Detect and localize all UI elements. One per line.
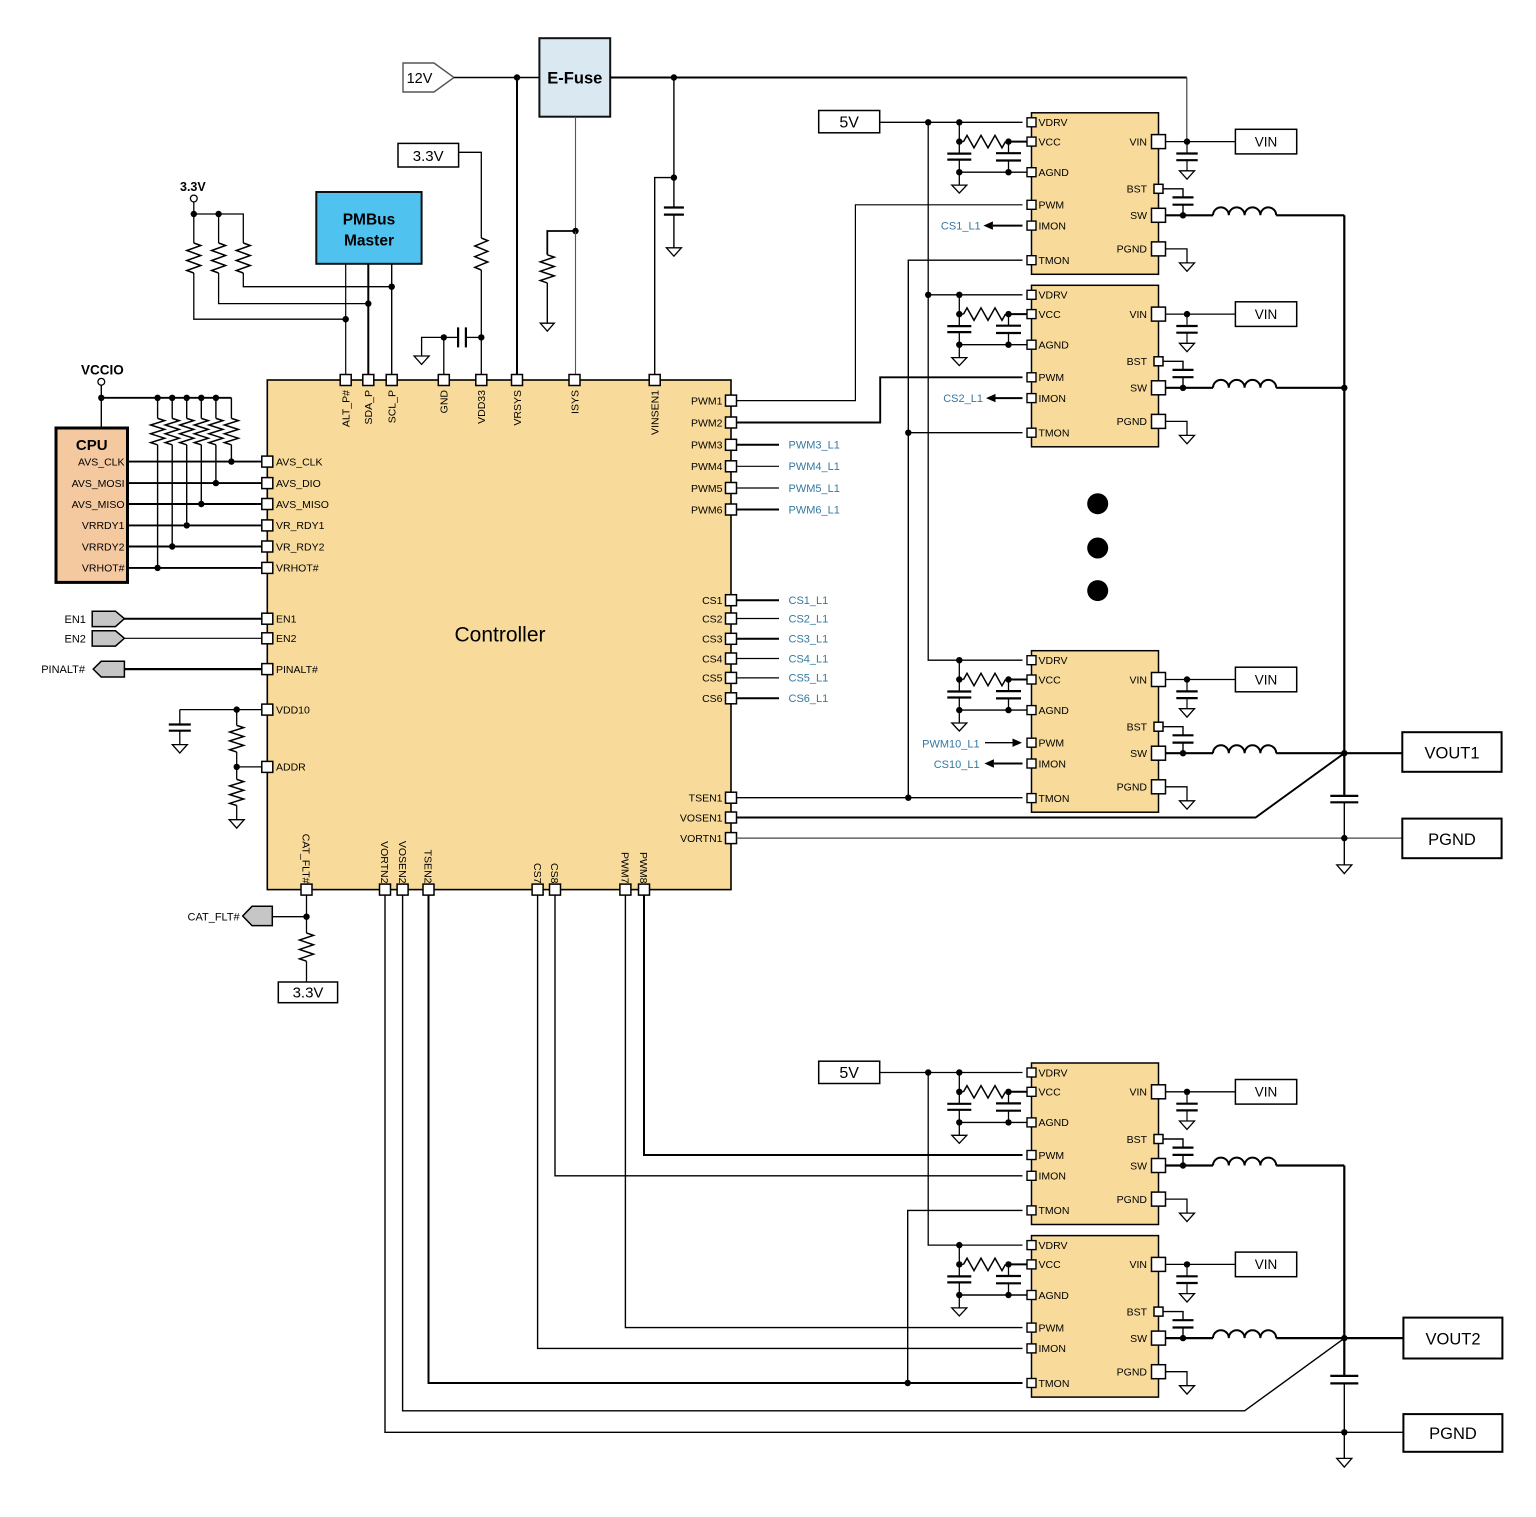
resistor R-ADDR-bottom	[230, 779, 244, 805]
junction PS1 VCC left	[956, 138, 962, 144]
junction VCCIO rail/R4	[198, 395, 204, 401]
PS1 pin PGND	[1152, 242, 1166, 256]
svg-text:PMBus: PMBus	[343, 212, 396, 229]
wire R-SCL to SCL_P	[243, 273, 391, 287]
capacitor C-VDD33	[458, 327, 466, 347]
inductor L-PS2	[1213, 380, 1276, 388]
power box VIN (PS3)	[1235, 667, 1296, 692]
wire TMON riser	[908, 260, 1022, 798]
wire 3.3V to R-VDD33	[459, 152, 482, 238]
svg-text:AVS_MOSI: AVS_MOSI	[72, 478, 125, 490]
PS3 pin VDRV	[1027, 656, 1036, 665]
controller left pin EN1	[262, 613, 273, 624]
svg-text:PWM8: PWM8	[637, 852, 649, 884]
svg-text:CS10_L1: CS10_L1	[934, 759, 980, 771]
E-Fuse U-EF	[539, 38, 610, 117]
junction VCCIO rail	[98, 395, 104, 401]
junction PS1 AGND left	[956, 169, 962, 175]
PS1 pin VCC	[1027, 137, 1036, 146]
CPU block	[56, 428, 128, 582]
svg-text:PWM5_L1: PWM5_L1	[789, 483, 840, 495]
wire C-VDD10 to ground	[179, 731, 181, 745]
controller bottom pin CAT_FLT#	[301, 884, 312, 895]
resistor R-VDD33	[475, 238, 488, 270]
junction 5V PS3 RC	[956, 657, 962, 663]
wire PWM2 net	[737, 377, 1023, 422]
svg-text:3.3V: 3.3V	[180, 180, 206, 194]
wire 5V feed riser bottom	[928, 1073, 1022, 1246]
wire PS3 VIN	[1166, 679, 1236, 681]
PS3 pin SW	[1152, 746, 1166, 760]
capacitor C2-PS1	[1008, 142, 1010, 154]
resistor R-ALT pullup	[187, 243, 201, 273]
capacitor C2-PS5	[1008, 1264, 1010, 1276]
svg-text:VDRV: VDRV	[1039, 655, 1068, 667]
PS2 pin VIN	[1152, 307, 1166, 321]
svg-text:VDRV: VDRV	[1039, 1067, 1068, 1079]
PS5 VCC feed	[958, 1245, 960, 1264]
svg-text:VIN: VIN	[1255, 134, 1278, 149]
controller right pin VOSEN1	[726, 812, 737, 823]
svg-text:VRHOT#: VRHOT#	[82, 563, 125, 575]
power box VOUT2	[1403, 1318, 1502, 1359]
capacitor C-VIN PS3	[1186, 680, 1188, 692]
resistor R-pullup AVS_MISO	[200, 398, 202, 419]
power stage PS4	[1032, 1063, 1159, 1225]
wire 5V PS2 branch	[928, 294, 1022, 296]
input flag EN2	[92, 631, 124, 646]
wire E-Fuse output	[610, 77, 1187, 79]
ground PS4 PGND	[1180, 1213, 1195, 1221]
wire PS1 AGND to ground	[958, 172, 960, 185]
wire to VINSEN1 pin	[655, 178, 674, 375]
svg-text:AVS_CLK: AVS_CLK	[276, 456, 323, 468]
controller right pin CS5	[726, 672, 737, 683]
wire stub PWM5	[737, 487, 780, 489]
controller right pin PWM2	[726, 417, 737, 428]
PS1 pin AGND	[1027, 168, 1036, 177]
power box VIN (PS1)	[1235, 129, 1296, 154]
svg-text:VOSEN2: VOSEN2	[396, 841, 408, 884]
power stage PS1	[1032, 113, 1159, 274]
junction PS2 VIN cap	[1184, 311, 1190, 317]
svg-text:PWM7: PWM7	[619, 852, 631, 884]
wire CAT_FLT# drop	[306, 895, 308, 917]
wire R-ISYS to ground	[546, 283, 548, 323]
svg-text:ISYS: ISYS	[569, 390, 581, 414]
controller bottom pin PWM8	[639, 884, 650, 895]
junction PS4 AGND left	[956, 1119, 962, 1125]
wire TMON riser bottom	[908, 1210, 1023, 1383]
svg-text:VOSEN1: VOSEN1	[680, 812, 723, 824]
wire PS2 PGND	[1166, 421, 1188, 435]
svg-text:CS1_L1: CS1_L1	[789, 595, 829, 607]
junction ADDR	[234, 764, 240, 770]
controller left pin AVS_CLK	[262, 456, 273, 467]
resistor R-pullup VR_RDY1	[186, 398, 188, 419]
svg-text:CS5_L1: CS5_L1	[789, 673, 829, 685]
wire PWM8 net	[644, 895, 1023, 1155]
svg-text:5V: 5V	[839, 1065, 859, 1082]
junction TSEN1/TMON riser	[905, 795, 911, 801]
wire AVS_MISO CPU to controller	[128, 503, 262, 505]
junction PS2 BST/SW	[1180, 385, 1186, 391]
wire VOUT2 to box	[1344, 1337, 1403, 1339]
svg-text:PWM2: PWM2	[691, 417, 723, 429]
wire ADDR pin	[237, 766, 262, 768]
capacitor C-VOUT1	[1330, 796, 1358, 802]
wire TSEN1 net	[737, 797, 1023, 799]
svg-text:VORTN2: VORTN2	[378, 841, 390, 884]
junction PS3 VCC right	[1005, 676, 1011, 682]
junction 5V PS4 RC	[956, 1069, 962, 1075]
controller right pin CS1	[726, 595, 737, 606]
svg-text:PWM: PWM	[1039, 738, 1065, 750]
svg-text:CS6_L1: CS6_L1	[789, 693, 829, 705]
wire stub CS5	[737, 677, 780, 679]
power stage PS2	[1032, 285, 1159, 447]
wire EN1	[124, 618, 261, 620]
ground PS2 PGND	[1180, 435, 1195, 443]
wire PS2 BST	[1163, 361, 1183, 370]
junction R-pullup AVS_DIO	[213, 480, 219, 486]
capacitor C-VIN12	[664, 208, 684, 215]
power box PGND (VOUT1)	[1402, 819, 1501, 859]
svg-text:VR_RDY2: VR_RDY2	[276, 541, 325, 553]
controller bottom pin CS7	[532, 884, 543, 895]
controller top pin ALT_P#	[340, 375, 351, 386]
wire IMON PS1 arrow	[993, 225, 1023, 227]
PS3 pin PWM	[1027, 738, 1036, 747]
svg-text:Master: Master	[344, 233, 394, 250]
wire CAT_FLT# to flag	[272, 916, 306, 918]
svg-text:VRRDY1: VRRDY1	[82, 520, 125, 532]
PS5 pin PWM	[1027, 1323, 1036, 1332]
svg-text:EN1: EN1	[65, 614, 86, 626]
wire R-VDD33 to VDD33 pin	[480, 270, 482, 375]
svg-text:CS3_L1: CS3_L1	[789, 634, 829, 646]
wire stub CS6	[737, 697, 780, 699]
junction PS1 BST/SW	[1180, 212, 1186, 218]
wire VOSEN1 net	[737, 753, 1345, 817]
junction TSEN2/TMON riser	[905, 1380, 911, 1386]
ground VOUT1 cap	[1337, 865, 1352, 874]
svg-text:EN2: EN2	[276, 633, 297, 645]
svg-text:PWM4_L1: PWM4_L1	[789, 461, 840, 473]
svg-text:TMON: TMON	[1039, 428, 1070, 440]
controller bottom pin PWM7	[620, 884, 631, 895]
wire PS1 BST	[1163, 189, 1183, 198]
svg-text:VCCIO: VCCIO	[81, 363, 124, 378]
svg-text:CS4_L1: CS4_L1	[789, 653, 829, 665]
svg-text:PWM10_L1: PWM10_L1	[922, 739, 979, 751]
wire VOUT2 rail	[1343, 1166, 1345, 1376]
svg-text:SDA_P: SDA_P	[363, 390, 375, 424]
inductor L-PS4	[1213, 1158, 1276, 1166]
svg-text:PWM3: PWM3	[691, 440, 723, 452]
svg-text:AVS_MISO: AVS_MISO	[72, 499, 125, 511]
controller top pin SCL_P	[386, 375, 397, 386]
PS4 pin BST	[1154, 1135, 1163, 1144]
svg-text:CS2_L1: CS2_L1	[943, 393, 983, 405]
svg-text:AGND: AGND	[1039, 705, 1070, 717]
capacitor C1-PS4	[958, 1092, 960, 1104]
wire PMBus ALT_P#	[345, 264, 347, 375]
controller left pin ADDR	[262, 761, 273, 772]
controller right pin PWM4	[726, 461, 737, 472]
controller right pin PWM6	[726, 504, 737, 515]
ground PS3 AGND	[952, 723, 967, 731]
resistor R-ISYS	[540, 255, 554, 283]
wire PMBus SDA_P	[367, 264, 369, 375]
capacitor C1-PS2	[958, 314, 960, 326]
capacitor C-VIN PS1	[1186, 142, 1188, 154]
svg-text:CPU: CPU	[76, 437, 108, 454]
svg-text:BST: BST	[1127, 1134, 1148, 1146]
junction PS5 VIN cap	[1184, 1261, 1190, 1267]
svg-text:VDD33: VDD33	[476, 390, 488, 424]
PS2 pin AGND	[1027, 340, 1036, 349]
power box 5V (top)	[819, 111, 880, 133]
junction R-pullup AVS_MISO	[198, 501, 204, 507]
PS2 pin IMON	[1027, 394, 1036, 403]
svg-text:IMON: IMON	[1039, 758, 1066, 770]
ground below R-ISYS	[540, 323, 554, 331]
PS5 pin BST	[1154, 1307, 1163, 1316]
svg-text:SW: SW	[1130, 383, 1147, 395]
svg-text:PGND: PGND	[1117, 1194, 1148, 1206]
PS1 pin PWM	[1027, 200, 1036, 209]
controller right pin VORTN1	[726, 833, 737, 844]
PS2 pin TMON	[1027, 428, 1036, 437]
svg-text:VDRV: VDRV	[1039, 1240, 1068, 1252]
junction ISYS/R	[572, 228, 578, 234]
PS3 pin VCC	[1027, 675, 1036, 684]
capacitor C-BST PS4	[1173, 1148, 1194, 1155]
junction PS1 VCC right	[1005, 138, 1011, 144]
junction E-Fuse out / VINSEN branch	[671, 74, 677, 80]
wire 5V rail bottom	[880, 1072, 1023, 1074]
PS3 pin AGND	[1027, 706, 1036, 715]
wire PS1 PGND	[1166, 249, 1188, 263]
PS1 pin VIN	[1152, 135, 1166, 149]
svg-text:VORTN1: VORTN1	[680, 833, 723, 845]
svg-text:PGND: PGND	[1117, 416, 1148, 428]
wire TMON PS2 branch	[908, 432, 1022, 434]
junction TMON PS2	[905, 430, 911, 436]
wire AVS_DIO CPU to controller	[128, 482, 262, 484]
svg-text:VIN: VIN	[1255, 672, 1278, 687]
capacitor C-BST PS2	[1173, 370, 1194, 377]
wire PS2 SW to rail	[1276, 387, 1344, 389]
svg-text:PWM4: PWM4	[691, 461, 723, 473]
svg-text:CS3: CS3	[702, 634, 723, 646]
svg-text:PGND: PGND	[1117, 782, 1148, 794]
svg-text:VIN: VIN	[1129, 309, 1147, 321]
PS3 VCC feed	[958, 660, 960, 679]
svg-text:5V: 5V	[839, 115, 859, 132]
wire PWM7 net	[625, 895, 1022, 1328]
PS5 pin VIN	[1152, 1257, 1166, 1271]
wire 3.3V pullup rail	[194, 214, 244, 243]
svg-text:VCC: VCC	[1039, 309, 1062, 321]
PS4 pin VCC	[1027, 1087, 1036, 1096]
svg-text:CS2_L1: CS2_L1	[789, 613, 829, 625]
resistor R-pullup AVS_DIO	[215, 398, 217, 419]
wire stub CS3	[737, 638, 780, 640]
PS1 VCC feed	[958, 122, 960, 141]
svg-text:IMON: IMON	[1039, 220, 1066, 232]
svg-text:PINALT#: PINALT#	[276, 664, 318, 676]
junction PS5 VCC right	[1005, 1261, 1011, 1267]
PS3 pin IMON	[1027, 759, 1036, 768]
wire PS4 SW to rail	[1276, 1164, 1344, 1166]
junction 5V PS2 RC	[956, 292, 962, 298]
controller right pin PWM5	[726, 483, 737, 494]
junction GND/cap	[441, 334, 447, 340]
controller left pin VR_RDY1	[262, 520, 273, 531]
junction rail/R1	[191, 211, 197, 217]
wire stub PWM4	[737, 465, 780, 467]
resistor R-PS1 VCC	[959, 141, 963, 143]
junction PS5 BST/SW	[1180, 1335, 1186, 1341]
junction VOUT1 PS2	[1341, 385, 1347, 391]
svg-text:IMON: IMON	[1039, 1171, 1066, 1183]
PS1 pin TMON	[1027, 256, 1036, 265]
junction VCCIO rail/R3	[184, 395, 190, 401]
wire PS5 AGND to ground	[958, 1295, 960, 1308]
svg-text:PGND: PGND	[1117, 1367, 1148, 1379]
wire cap left lead	[444, 336, 458, 338]
ground PS5 VIN	[1180, 1294, 1195, 1302]
PS2 pin VDRV	[1027, 290, 1036, 299]
power box 3.3V (CAT_FLT pullup)	[278, 982, 337, 1003]
svg-text:TMON: TMON	[1039, 255, 1070, 267]
junction VDD33/C-GND	[478, 334, 484, 340]
svg-text:AVS_DIO: AVS_DIO	[276, 478, 321, 490]
svg-text:EN2: EN2	[65, 633, 86, 645]
wire 5V rail top	[880, 121, 1023, 123]
resistor R-pullup VRHOT#	[157, 398, 159, 419]
wire PS4 BST	[1163, 1139, 1183, 1148]
PS4 pin SW	[1152, 1159, 1166, 1173]
junction R-pullup VR_RDY1	[184, 522, 190, 528]
PS1 pin IMON	[1027, 221, 1036, 230]
resistor R-PS4 VCC	[959, 1091, 963, 1093]
svg-text:CS7: CS7	[531, 863, 543, 884]
controller left pin AVS_MISO	[262, 499, 273, 510]
resistor R-PS3 VCC	[959, 679, 963, 681]
PS4 pin VDRV	[1027, 1068, 1036, 1077]
wire VORTN1 net	[737, 837, 1403, 839]
PS4 pin TMON	[1027, 1206, 1036, 1215]
svg-text:TMON: TMON	[1039, 793, 1070, 805]
wire EN2	[124, 637, 261, 639]
svg-text:BST: BST	[1127, 356, 1148, 368]
svg-text:ALT_P#: ALT_P#	[341, 390, 353, 427]
svg-text:3.3V: 3.3V	[293, 985, 324, 1002]
svg-text:PWM6_L1: PWM6_L1	[789, 504, 840, 516]
wire stub CS1	[737, 599, 780, 601]
svg-text:3.3V: 3.3V	[413, 148, 444, 165]
ellipsis dot 2	[1087, 538, 1108, 559]
wire PS4 VIN	[1166, 1091, 1236, 1093]
svg-text:VOUT2: VOUT2	[1425, 1330, 1480, 1348]
wire PMBus SCL_P	[391, 264, 393, 375]
capacitor C-VOUT2	[1330, 1376, 1358, 1384]
power box VIN (PS4)	[1235, 1080, 1296, 1105]
svg-text:IMON: IMON	[1039, 1343, 1066, 1355]
inductor L-PS3	[1213, 745, 1276, 753]
svg-text:VIN: VIN	[1129, 1087, 1147, 1099]
capacitor C1-PS1	[958, 142, 960, 154]
ground PS3 PGND	[1180, 801, 1195, 809]
controller right pin PWM1	[726, 395, 737, 406]
PS2 pin BST	[1154, 357, 1163, 366]
wire 3.3V terminal to rail	[193, 202, 195, 214]
svg-text:VIN: VIN	[1255, 1257, 1278, 1272]
wire to resistor R-ISYS	[547, 231, 575, 255]
PS5 pin TMON	[1027, 1379, 1036, 1388]
svg-text:SW: SW	[1130, 210, 1147, 222]
svg-text:PWM: PWM	[1039, 1150, 1065, 1162]
svg-text:TMON: TMON	[1039, 1205, 1070, 1217]
svg-text:E-Fuse: E-Fuse	[547, 70, 602, 88]
svg-text:CS8: CS8	[548, 863, 560, 884]
svg-text:AVS_MISO: AVS_MISO	[276, 499, 329, 511]
wire CS7 net	[538, 895, 1023, 1348]
svg-text:GND: GND	[439, 390, 451, 414]
controller left pin VRHOT#	[262, 562, 273, 573]
ground PS2 AGND	[952, 358, 967, 366]
resistor R-SCL pullup	[236, 243, 250, 273]
junction VDD10/R-ADDR	[234, 706, 240, 712]
junction VCCIO rail/R2	[169, 395, 175, 401]
power box VIN (PS5)	[1235, 1252, 1296, 1277]
svg-text:BST: BST	[1127, 184, 1148, 196]
svg-text:CS1: CS1	[702, 595, 723, 607]
svg-text:SW: SW	[1130, 748, 1147, 760]
wire VRSYS drop	[516, 78, 518, 375]
PS4 pin AGND	[1027, 1118, 1036, 1127]
wire PS3 SW to rail	[1276, 752, 1344, 754]
junction R-pullup VRHOT#	[154, 565, 160, 571]
ground PS5 AGND	[952, 1308, 967, 1316]
PS3 pin TMON	[1027, 794, 1036, 803]
controller right pin CS2	[726, 613, 737, 624]
capacitor C-BST PS5	[1173, 1320, 1194, 1327]
svg-text:Controller: Controller	[454, 624, 545, 647]
junction PS5 AGND left	[956, 1292, 962, 1298]
wire E-Fuse sense drop	[575, 117, 577, 231]
capacitor C1-PS5	[958, 1264, 960, 1276]
svg-text:AGND: AGND	[1039, 167, 1070, 179]
ground PS2 VIN	[1180, 343, 1195, 351]
resistor R-PS5 VCC	[959, 1263, 963, 1265]
wire GND pin up	[443, 337, 445, 374]
svg-text:BST: BST	[1127, 722, 1148, 734]
power box PGND (VOUT2)	[1403, 1414, 1502, 1452]
svg-text:TSEN1: TSEN1	[689, 793, 723, 805]
wire PS3 SW	[1166, 752, 1214, 754]
ground PS4 AGND	[952, 1135, 967, 1143]
controller top pin VDD33	[476, 375, 487, 386]
svg-text:CS6: CS6	[702, 693, 723, 705]
svg-text:CS1_L1: CS1_L1	[941, 221, 981, 233]
PS2 pin PGND	[1152, 414, 1166, 428]
controller bottom pin TSEN2	[423, 884, 434, 895]
wire IMON PS3 arrow	[994, 763, 1023, 765]
